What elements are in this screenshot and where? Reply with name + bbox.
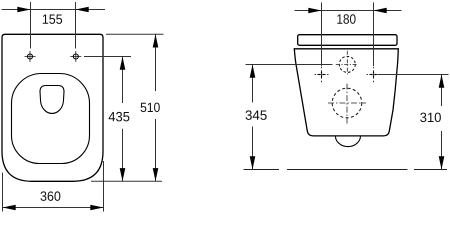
fixing hole left (cross target) (315, 67, 329, 82)
mounting hole left (crosshair circle) (25, 51, 36, 62)
dimension 345: top extension line (246, 64, 333, 66)
dimension 435: dimension line (122, 57, 124, 182)
dimension 310: top extension line (378, 74, 449, 76)
seat ring outline (12, 74, 90, 164)
dimension 155: dimension line with outside arrows (2, 9, 106, 11)
dimension 180: dimension line with outside arrows (295, 10, 402, 12)
dimension 180: label (337, 14, 355, 24)
dimension 310: dimension line (441, 75, 443, 170)
dimension 360: dimension line (3, 207, 104, 209)
WC body outline (top view) (2, 34, 103, 181)
dimension 435: label (109, 112, 130, 122)
dimension 155: extension lines (31, 2, 76, 49)
dimension 345: dimension line (252, 65, 254, 170)
dimension 510: dimension line (155, 34, 157, 181)
lower dashed circle (drain) (332, 88, 362, 118)
dimension 180: extension lines (322, 3, 374, 67)
dimension 310: label (420, 113, 441, 123)
dimension 360: extension lines (3, 161, 104, 212)
upper dashed circle (water supply) (339, 56, 355, 72)
dimension 155: label (43, 15, 62, 24)
upper circle center lines (336, 51, 358, 75)
dimension 510: label (141, 103, 160, 113)
floor line (244, 169, 448, 171)
WC body outline (rear view) (294, 49, 398, 136)
outlet bump (bottom half-ellipse) (335, 136, 360, 147)
lower circle center lines (328, 84, 366, 124)
dimension 510: top extension line (106, 33, 164, 35)
dimension 360: label (41, 191, 61, 201)
dimension 435: top extension line (from right hole) (84, 56, 131, 58)
seat lid (top slab) (298, 35, 397, 46)
dimension 345: label (246, 110, 267, 120)
inner bowl opening (40, 86, 64, 114)
bottom extension line for 435/510 (91, 180, 162, 182)
mounting hole right (crosshair circle) (70, 51, 81, 62)
fixing hole right (cross target) (367, 67, 381, 82)
